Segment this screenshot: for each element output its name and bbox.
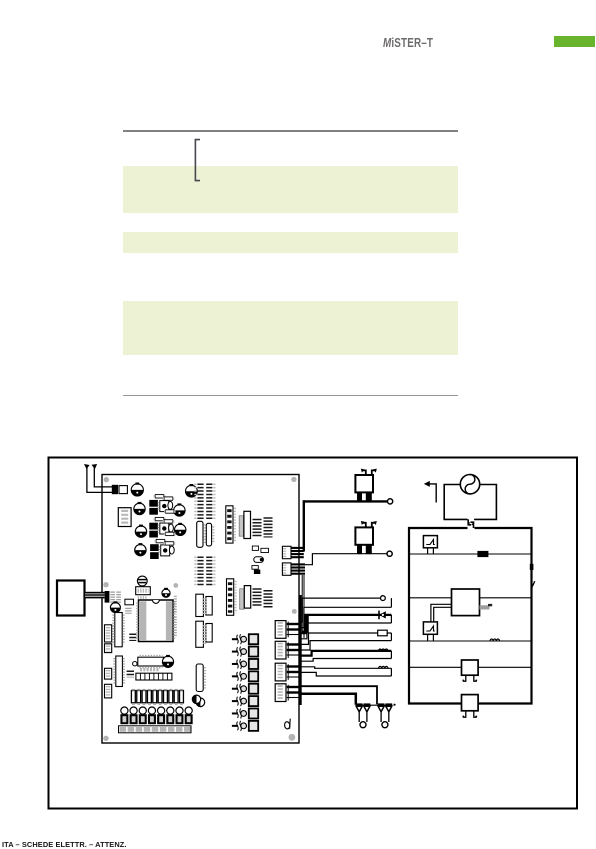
capacitor C4 xyxy=(174,503,185,516)
breaker S3 xyxy=(423,622,437,641)
bottom rule xyxy=(123,395,458,396)
output connector CN8 xyxy=(275,621,301,639)
edge connector CN2 xyxy=(282,563,305,575)
wire relay K1 feed xyxy=(304,500,388,551)
varistor RV4 xyxy=(385,705,392,712)
wire bundle elbow xyxy=(302,616,307,632)
relay driver Q7 xyxy=(232,671,258,681)
LED row DL1-DL9 xyxy=(120,707,192,724)
varistor RV2 xyxy=(364,705,371,712)
resistor R12 xyxy=(138,596,147,599)
display unit box xyxy=(57,581,85,616)
fuse F2 xyxy=(478,551,488,556)
logo MiSTER-T xyxy=(383,36,433,50)
transistor pair Q3 xyxy=(150,544,159,559)
power box outline xyxy=(409,528,532,704)
wire valve line 5 xyxy=(301,667,392,676)
output connector CN9 xyxy=(275,641,301,659)
crystal Y1 xyxy=(168,501,173,509)
connector CN4 xyxy=(105,625,112,642)
probe terminal T4 xyxy=(360,722,366,728)
resistor R7 xyxy=(164,510,176,513)
green tab top-right xyxy=(554,36,595,47)
fuse F1 xyxy=(378,630,388,636)
wire to probe 1 xyxy=(359,712,367,722)
capacitor C10 xyxy=(110,601,120,612)
wire to probe 2 xyxy=(381,712,389,722)
wire sensor return 1 xyxy=(301,607,392,627)
capacitor C2 xyxy=(186,484,198,497)
header P5 xyxy=(127,671,134,678)
output connector CN10 xyxy=(275,663,301,681)
capacitor C7 xyxy=(135,543,146,556)
wire KM1 to S3 xyxy=(431,604,452,622)
marking d xyxy=(284,719,290,730)
top rule xyxy=(123,130,458,132)
resistor R10 xyxy=(261,548,269,552)
wire input arrow 2 xyxy=(92,464,113,487)
mounting holes xyxy=(103,477,296,741)
jumper JP1 xyxy=(254,570,260,574)
connector CN7 xyxy=(105,684,112,698)
relay K2 xyxy=(355,521,376,554)
relay driver Q6 xyxy=(232,659,258,669)
crystal Y3 xyxy=(169,546,174,554)
relay driver Q9 xyxy=(232,696,258,706)
electrolytic C9 xyxy=(240,586,251,610)
bracket glyph xyxy=(188,136,204,186)
test point TP1 xyxy=(133,662,137,666)
resistor R8 xyxy=(164,532,176,535)
plug connector X1 xyxy=(468,519,473,528)
SIP network RN2 xyxy=(206,523,213,546)
capacitor C3 xyxy=(134,502,145,515)
wire bundle pair xyxy=(302,575,304,638)
output connector CN11 xyxy=(275,684,301,702)
transistor pair Q1 xyxy=(149,500,158,515)
resistor R1 xyxy=(154,495,166,498)
wire fuse return 3 xyxy=(301,641,392,650)
terminal circle T2 xyxy=(387,551,392,556)
bus line 4 xyxy=(409,666,532,668)
bus line 2 xyxy=(409,597,532,599)
terminal block TB1 xyxy=(119,726,192,733)
diode D4 xyxy=(379,611,386,620)
wire relay K2 feed xyxy=(304,554,387,565)
terminal circle T3 xyxy=(381,596,386,601)
resistor R2 xyxy=(163,497,175,500)
resistor R4 xyxy=(163,520,175,523)
wire input arrow 1 xyxy=(84,464,112,492)
wire valve return 5 xyxy=(301,672,392,676)
filter L1 xyxy=(113,592,119,604)
SIP network RN1 xyxy=(197,521,205,547)
driver IC U4 xyxy=(159,523,170,534)
connector CN6 xyxy=(105,668,112,679)
return arrow xyxy=(424,481,436,503)
connector CN5 xyxy=(105,644,112,653)
pin header P1 xyxy=(195,484,214,520)
resistor network RN5 xyxy=(227,579,236,616)
relay K1 xyxy=(355,469,376,502)
edge connector CN1 xyxy=(282,546,303,558)
capacitor C12 xyxy=(162,655,173,668)
IC U11 pins xyxy=(264,590,273,608)
auxiliary block A2 xyxy=(462,695,479,718)
wire sensor line 1 xyxy=(301,598,392,622)
wire power return 2 xyxy=(301,623,392,639)
capacitor C6 xyxy=(175,523,186,536)
resistor R11 xyxy=(252,566,258,570)
inductor L2 xyxy=(125,608,131,614)
trimmer capacitor CV1 xyxy=(137,576,147,586)
IC U8 pins xyxy=(253,519,262,537)
capacitor C1 xyxy=(131,483,143,497)
input connector J1 xyxy=(112,485,128,494)
wire aux line 6 xyxy=(301,686,378,704)
contact tick xyxy=(530,564,534,570)
varistor RV3 xyxy=(378,705,385,712)
IC pair U6 xyxy=(196,594,212,616)
relay driver Q5 xyxy=(232,647,258,657)
highlight block 3 xyxy=(123,301,458,355)
optocoupler U2 xyxy=(118,508,131,527)
highlight block 1 xyxy=(123,166,458,214)
footer text (clipped) xyxy=(2,840,127,849)
voltage regulator VR1 xyxy=(136,587,151,595)
IC U10 pins xyxy=(253,588,262,606)
pump M1 xyxy=(460,475,479,494)
resistor R9 xyxy=(252,546,258,550)
switch S2 xyxy=(531,581,535,589)
pin header P2 xyxy=(195,557,214,587)
transistor pair Q2 xyxy=(149,523,158,538)
driver IC U3 xyxy=(159,501,170,512)
diode D3 xyxy=(192,695,200,703)
probe terminal T5 xyxy=(382,722,388,728)
diode D2 xyxy=(254,557,264,563)
wire fuse line 3 xyxy=(301,633,392,644)
contactor KM1 xyxy=(452,589,493,616)
resistor R6 xyxy=(164,542,176,545)
relay driver Q11 xyxy=(232,721,258,731)
auxiliary block A1 xyxy=(462,660,479,681)
header P3 xyxy=(174,596,177,636)
breaker S1 xyxy=(423,536,437,554)
pump loop wire xyxy=(444,485,496,520)
relay driver Q8 xyxy=(232,684,258,694)
inductor L xyxy=(379,666,388,668)
capacitor C5 xyxy=(135,525,146,538)
wire motor return 4 xyxy=(301,659,392,662)
capacitor C11 xyxy=(162,588,170,598)
SIP network RN3 xyxy=(196,664,205,692)
terminal circle T1 xyxy=(388,499,393,504)
spark mark xyxy=(393,704,395,706)
DIP switch SW1 xyxy=(136,673,172,680)
relay driver Q4 xyxy=(232,634,258,644)
IC U9 pins xyxy=(264,517,273,537)
inductor L xyxy=(379,649,388,651)
bus line 1 xyxy=(409,553,532,555)
ribbon cable xyxy=(85,592,105,599)
wire trunk along PCB edge xyxy=(299,595,301,705)
resistor row R13-R22 xyxy=(131,689,183,705)
IC pair U7 xyxy=(196,621,212,647)
wire aux line 7 (thick) xyxy=(301,694,356,705)
microcontroller U13 xyxy=(137,600,174,642)
connector CN3 xyxy=(105,591,110,603)
resistor network RN4 xyxy=(226,506,235,543)
highlight block 2 xyxy=(123,232,458,253)
header P4 xyxy=(129,634,136,642)
wire power line 2 xyxy=(301,615,392,633)
crystal Y2 xyxy=(169,524,174,532)
inductor L3 xyxy=(490,639,500,641)
schematic frame xyxy=(49,458,578,809)
IC U15 xyxy=(114,656,123,687)
driver IC U5 xyxy=(160,545,171,556)
bus line 3 xyxy=(409,640,532,642)
varistor RV1 xyxy=(356,705,363,712)
IC U14 xyxy=(113,613,123,647)
resistor R5 xyxy=(155,539,167,542)
wire motor line 4 xyxy=(301,651,392,659)
terminal bus link xyxy=(356,704,392,706)
PCB board outline xyxy=(102,475,299,744)
IC U12 xyxy=(125,599,134,605)
electrolytic C8 xyxy=(239,511,250,538)
relay driver Q10 xyxy=(232,708,258,718)
resistor R3 xyxy=(154,517,166,520)
diode D1 xyxy=(196,698,205,707)
DIP socket U16 xyxy=(138,656,164,667)
solder pads row xyxy=(140,668,159,671)
